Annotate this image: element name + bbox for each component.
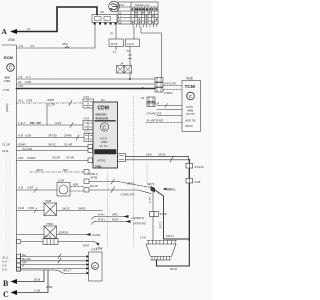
wire pin to fuse 11C5 (115, 25, 117, 40)
svg-text:A4.8: A4.8 (55, 121, 62, 125)
svg-text:24/31: 24/31 (44, 235, 52, 239)
connector 7/13 (83, 99, 94, 108)
bus connector 64/8 (186, 179, 189, 184)
svg-text:ECM: ECM (4, 55, 14, 60)
bottom feed line to module (53, 270, 87, 274)
svg-text:0.5R: 0.5R (25, 134, 32, 138)
svg-text:4R.17: 4R.17 (63, 269, 71, 273)
svg-text:4R7R: 4R7R (185, 124, 194, 128)
svg-text:17/9: 17/9 (140, 236, 146, 240)
svg-text:64PS: 64PS (147, 182, 154, 186)
CDM bottom wires to splice (84, 179, 89, 184)
svg-text:30.B: 30.B (34, 278, 40, 282)
ECM box outline (2, 45, 53, 270)
svg-text:24/6: 24/6 (146, 153, 152, 157)
switch position table (118, 2, 158, 24)
wire thick loop to OBD bottom pin (157, 239, 190, 266)
svg-text:15: 15 (141, 96, 145, 100)
svg-text:xRTR.RD: xRTR.RD (132, 222, 147, 226)
splice verticals down (152, 192, 154, 241)
svg-text:C: C (189, 94, 193, 100)
svg-text:OR-N: OR-N (166, 234, 174, 238)
wire table to fuse 11C4 (133, 27, 135, 39)
connector X pair (117, 66, 125, 74)
wire ECM row y103 dashdot to CDM (17, 102, 84, 104)
wire table to right bus (141, 27, 162, 78)
svg-text:-7/7R: -7/7R (2, 88, 10, 92)
node A arrow (10, 29, 17, 34)
svg-text:A/TB1: A/TB1 (97, 159, 106, 163)
fuse 11C5 (109, 39, 124, 47)
svg-text:2R4R: 2R4R (18, 143, 27, 147)
svg-text:34/3C: 34/3C (48, 143, 57, 147)
ECM symbol circle (7, 64, 15, 72)
wire fuse2 down to connector (129, 47, 131, 66)
svg-text:24/134: 24/134 (195, 165, 205, 169)
svg-text:C: C (9, 66, 13, 72)
svg-text:1.0B: 1.0B (34, 289, 40, 293)
svg-text:xARMR.R: xARMR.R (130, 216, 145, 220)
svg-text:A: A (2, 27, 8, 36)
svg-text:4/56: 4/56 (8, 38, 15, 42)
svg-text:7/RR: 7/RR (46, 222, 54, 226)
dotted section lines (107, 172, 109, 247)
wire ECM row y88 bold (17, 88, 156, 90)
CDM left small pins (88, 145, 93, 149)
svg-text:31.4R: 31.4R (64, 143, 73, 147)
svg-text:VL.SJ: VL.SJ (100, 144, 109, 148)
connector stack 2 (147, 97, 155, 102)
svg-text:2.5: 2.5 (19, 44, 24, 48)
svg-text:34/2C: 34/2C (62, 207, 71, 211)
svg-text:6/3R: 6/3R (46, 285, 53, 289)
TCM box (182, 81, 201, 132)
svg-text:11C4: 11C4 (127, 42, 134, 46)
svg-text:R-R+: R-R+ (98, 218, 105, 222)
svg-text:ARC: ARC (112, 213, 119, 217)
wire ECM row y84 thin (17, 83, 156, 85)
svg-text:1R.7B: 1R.7B (186, 112, 194, 116)
TCM left rows (157, 105, 182, 107)
node B arrow (17, 270, 45, 282)
svg-text:31.2R: 31.2R (47, 103, 56, 107)
svg-text:T1: T1 (113, 50, 117, 54)
connector stack right (155, 78, 163, 83)
svg-text:PM: PM (30, 121, 35, 125)
svg-text:64/8: 64/8 (195, 180, 201, 184)
svg-text:7/24: 7/24 (91, 248, 97, 252)
svg-text:RA.W: RA.W (90, 184, 98, 188)
svg-text:A11: A11 (18, 99, 23, 103)
wire ECM row y125 to CDM (17, 124, 84, 126)
svg-text:0.5R: 0.5R (26, 99, 33, 103)
svg-text:A.B: A.B (18, 186, 23, 190)
svg-text:0.5R: 0.5R (27, 186, 34, 190)
wire ECM row y137 to CDM (17, 137, 85, 139)
svg-text:4.0: 4.0 (30, 44, 35, 48)
wire ECM row y160 (17, 160, 89, 162)
svg-text:A-R+: A-R+ (98, 213, 105, 217)
svg-text:C2/R2: C2/R2 (92, 233, 101, 237)
svg-text:7/14: 7/14 (83, 117, 89, 121)
node C arrow (17, 270, 49, 293)
fuse 11C4 (126, 39, 140, 47)
connector 7/14 (83, 121, 94, 130)
fusebox 11 (92, 15, 117, 23)
svg-text:A.4: A.4 (26, 75, 31, 79)
CDM right exit connector (118, 154, 126, 162)
svg-text:.R.ARTR.RD: .R.ARTR.RD (146, 119, 164, 123)
svg-text:OR.B: OR.B (158, 153, 165, 157)
svg-text:C: C (3, 290, 9, 299)
svg-text:.00R: .00R (72, 183, 79, 187)
svg-text:30: 30 (141, 86, 145, 90)
connector 17/1 (84, 134, 94, 142)
svg-text:4/52: 4/52 (62, 42, 68, 46)
svg-text:A1R.7B: A1R.7B (185, 119, 195, 123)
svg-text:7/R8: 7/R8 (45, 199, 52, 203)
svg-text:C4+DR: C4+DR (22, 147, 33, 151)
svg-text:1/2R: 1/2R (58, 179, 65, 183)
svg-text:0.5DR: 0.5DR (27, 156, 36, 160)
svg-text:+R+RD.R: +R+RD.R (146, 102, 160, 106)
lamp 7/RR (44, 226, 57, 239)
svg-text:Pos: Pos (119, 3, 125, 7)
svg-text:7R1: 7R1 (18, 84, 24, 88)
wire ECM row y79 thin (17, 78, 156, 80)
svg-text:4/28: 4/28 (186, 77, 193, 81)
svg-text:3R-R: 3R-R (170, 267, 178, 271)
table pins below (133, 24, 157, 27)
connector blip on wire (65, 47, 69, 48)
svg-text:2.5: 2.5 (18, 75, 23, 79)
module 7/24 (89, 252, 103, 281)
svg-text:B: B (3, 279, 9, 288)
svg-text:.00C: .00C (62, 168, 69, 172)
svg-text:34RD: 34RD (78, 207, 87, 211)
svg-text:4R5R2R8: 4R5R2R8 (95, 117, 109, 121)
svg-text:0.5R: 0.5R (28, 206, 35, 210)
CDM box (93, 102, 118, 168)
svg-text:A.R: A.R (18, 134, 24, 138)
svg-text:A/TD.RD: A/TD.RD (164, 82, 177, 86)
wire row y172 dashed (30, 171, 84, 173)
resistor row 24/31 (21, 241, 43, 243)
svg-text:7.5A: 7.5A (4, 79, 11, 83)
svg-text:2R4R: 2R4R (64, 134, 73, 138)
bus connector 24/134 (186, 164, 189, 169)
bottom pin column (20, 253, 22, 270)
wire ECM pin B5 to fusebox pin (17, 25, 96, 49)
svg-text:17/1: 17/1 (84, 130, 90, 134)
screen dotted to splice (147, 163, 150, 187)
svg-text:N1: N1 (101, 98, 105, 102)
splice (151, 186, 156, 193)
svg-text:34T3D: 34T3D (48, 134, 58, 138)
svg-text:31.1R: 31.1R (2, 143, 11, 147)
svg-text:23H31: 23H31 (167, 188, 176, 192)
dashes to TCM (163, 85, 181, 87)
lamp 7/R8 (44, 203, 57, 216)
svg-text:21.R: 21.R (18, 206, 25, 210)
svg-text:6/34: 6/34 (83, 244, 89, 248)
svg-text:J.R+RD.R3: J.R+RD.R3 (146, 112, 162, 116)
svg-text:C: C (93, 264, 96, 269)
svg-text:A.A: A.A (2, 268, 7, 272)
svg-text:15: 15 (27, 27, 31, 31)
svg-text:III: III (119, 21, 122, 25)
svg-text:0.5RD: 0.5RD (164, 91, 173, 95)
svg-text:34.4R: 34.4R (66, 156, 75, 160)
svg-text:TCM: TCM (185, 84, 195, 90)
svg-text:+31RD.RD: +31RD.RD (120, 193, 135, 197)
svg-text:CDM: CDM (98, 106, 109, 112)
svg-text:J4: J4 (120, 62, 124, 66)
svg-text:7/13: 7/13 (83, 95, 89, 99)
svg-text:RDR: RDR (112, 218, 119, 222)
wire ECM row y146 (17, 146, 89, 148)
wire connector down to row y79 (129, 73, 131, 79)
svg-text:34TB: 34TB (160, 212, 167, 216)
connector bar 34/9 (150, 212, 155, 217)
svg-text:1.3L7: 1.3L7 (18, 121, 26, 125)
svg-text:44TB: 44TB (90, 176, 97, 180)
svg-text:21R: 21R (18, 156, 24, 160)
svg-text:C: C (102, 125, 106, 131)
fusebox pins (94, 23, 117, 25)
ignition switch symbol (109, 1, 120, 12)
svg-text:11C5: 11C5 (111, 42, 118, 46)
svg-text:TMB: TMB (95, 165, 102, 169)
svg-text:J00C: J00C (36, 168, 44, 172)
bottom rows to module (21, 256, 87, 258)
svg-text:30R5: 30R5 (47, 98, 55, 102)
svg-text:0.75: 0.75 (148, 197, 152, 203)
screen dotted (46, 105, 48, 126)
svg-text:0.5R: 0.5R (25, 80, 32, 84)
right bus vertical (188, 160, 190, 241)
svg-text:31/3R: 31/3R (52, 156, 61, 160)
sensor arrow rows (92, 217, 96, 220)
svg-text:3/2RD0: 3/2RD0 (58, 231, 69, 235)
svg-text:31: 31 (110, 31, 114, 35)
wire thick feed from A to fusebox (16, 7, 97, 32)
svg-text:Switch pos: Switch pos (135, 3, 150, 7)
svg-text:3TC1: 3TC1 (158, 221, 162, 229)
wire ECM row y150 (17, 150, 89, 152)
svg-text:(EGR): (EGR) (5, 104, 9, 113)
table contact dots (132, 12, 157, 23)
double wire CDM to right bus (126, 156, 189, 158)
lamp K1 circle component (57, 183, 70, 197)
svg-text:31.R: 31.R (2, 149, 9, 153)
